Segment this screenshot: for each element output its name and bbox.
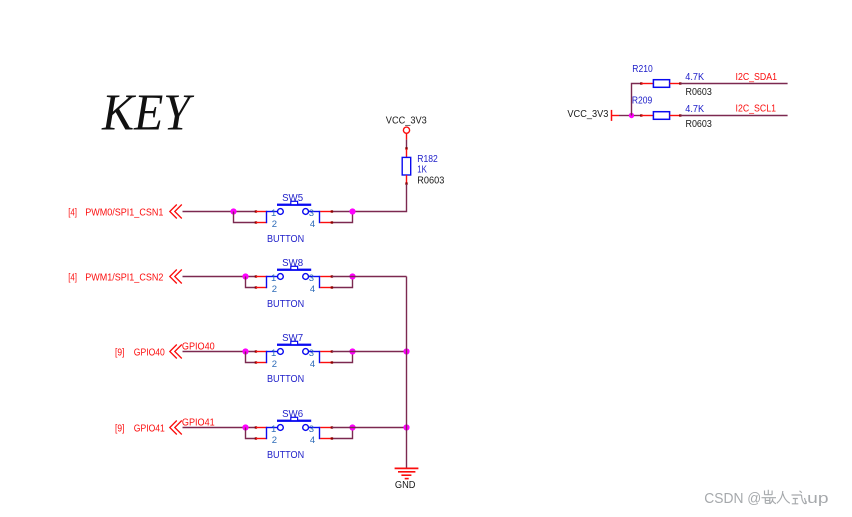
svg-text:[4]: [4]	[68, 208, 77, 219]
resistor R210	[632, 64, 712, 98]
title KEY	[101, 84, 195, 141]
junction left of SW6	[242, 424, 248, 430]
svg-text:[9]: [9]	[115, 424, 125, 435]
svg-text:VCC_3V3: VCC_3V3	[386, 116, 428, 127]
svg-text:4.7K: 4.7K	[685, 72, 704, 83]
wire junction to R210	[632, 82, 643, 115]
junction right of SW6	[349, 424, 355, 430]
svg-text:2: 2	[272, 284, 277, 295]
wire SW5 loop right	[331, 210, 353, 223]
net label I2C_SDA1	[736, 72, 778, 83]
wire SW6 to GND bus	[332, 427, 407, 429]
svg-text:R0603: R0603	[686, 119, 713, 130]
svg-text:R0603: R0603	[686, 87, 713, 98]
switch SW8	[256, 258, 332, 310]
junction right of SW5	[349, 208, 355, 214]
switch SW6	[256, 409, 332, 461]
wire SW7 loop right	[331, 350, 353, 363]
port GPIO40	[115, 345, 182, 359]
svg-text:R182: R182	[417, 154, 438, 165]
wire VCC_3V3 to R182	[405, 140, 407, 150]
wire VCC_3V3 to junction	[619, 115, 632, 117]
svg-text:[9]: [9]	[115, 348, 125, 359]
net label GPIO40	[182, 342, 215, 353]
svg-text:1: 1	[271, 273, 276, 284]
watermark CSDN @嵌入式up	[704, 490, 828, 507]
svg-text:1: 1	[271, 424, 276, 435]
wire SW6 pin2 loop	[246, 426, 258, 439]
svg-text:SW8: SW8	[282, 258, 304, 269]
junction I2C	[629, 113, 634, 118]
wire GND bus	[406, 277, 408, 469]
svg-text:PWM1/SPI1_CSN2: PWM1/SPI1_CSN2	[85, 273, 163, 284]
svg-text:up: up	[807, 491, 828, 507]
wire R182 to SW5 right side	[332, 184, 407, 212]
svg-text:2: 2	[272, 219, 277, 230]
wire SW7 pin2 loop	[246, 350, 258, 363]
junction right of SW7	[349, 348, 355, 354]
wire R209 to I2C_SCL1	[680, 115, 787, 117]
wire SW8 to GND bus	[332, 276, 407, 278]
svg-text:1: 1	[271, 348, 276, 359]
wire SW8 pin2 loop	[246, 275, 258, 288]
svg-text:BUTTON: BUTTON	[267, 450, 304, 461]
wire SW5 pin2 loop	[234, 210, 258, 223]
svg-text:SW6: SW6	[282, 409, 304, 420]
svg-text:I2C_SCL1: I2C_SCL1	[736, 103, 777, 114]
svg-text:4: 4	[310, 284, 315, 295]
svg-text:R209: R209	[632, 95, 652, 106]
switch SW5	[256, 193, 332, 245]
power port VCC_3V3 (right)	[567, 109, 619, 121]
svg-text:BUTTON: BUTTON	[267, 374, 304, 385]
svg-text:VCC_3V3: VCC_3V3	[567, 109, 609, 120]
svg-text:R0603: R0603	[417, 175, 445, 186]
svg-text:GPIO40: GPIO40	[134, 348, 165, 359]
junction left of SW8	[242, 273, 248, 279]
svg-text:GPIO41: GPIO41	[134, 424, 165, 435]
resistor R182	[402, 149, 445, 186]
svg-text:2: 2	[272, 359, 277, 370]
ground GND	[395, 468, 419, 491]
svg-text:4: 4	[310, 359, 315, 370]
power port VCC_3V3 (top)	[386, 116, 428, 140]
svg-text:3: 3	[309, 273, 314, 284]
svg-text:4: 4	[310, 435, 315, 446]
svg-text:I2C_SDA1: I2C_SDA1	[736, 72, 778, 83]
switch SW7	[256, 333, 332, 385]
svg-text:1K: 1K	[417, 165, 427, 176]
wire port to SW8	[183, 276, 256, 278]
svg-text:3: 3	[309, 208, 314, 219]
wire SW7 to GND bus	[332, 351, 407, 353]
svg-text:PWM0/SPI1_CSN1: PWM0/SPI1_CSN1	[85, 208, 163, 219]
svg-text:BUTTON: BUTTON	[267, 299, 304, 310]
svg-text:SW5: SW5	[282, 193, 304, 204]
svg-text:4: 4	[310, 219, 315, 230]
junction bus at SW7 row	[403, 348, 409, 354]
port GPIO41	[115, 421, 182, 435]
wire SW8 loop right	[331, 275, 353, 288]
svg-text:CSDN @: CSDN @	[704, 491, 761, 507]
svg-text:GND: GND	[395, 480, 416, 491]
svg-text:BUTTON: BUTTON	[267, 234, 304, 245]
wire junction to R209	[634, 114, 643, 116]
port PWM0/SPI1_CSN1	[68, 205, 182, 219]
svg-text:4.7K: 4.7K	[685, 104, 704, 115]
wire R210 to I2C_SDA1	[680, 83, 787, 85]
svg-text:[4]: [4]	[68, 273, 77, 284]
svg-text:R210: R210	[632, 64, 653, 75]
junction left of SW5	[230, 208, 236, 214]
net label I2C_SCL1	[736, 103, 777, 114]
svg-text:2: 2	[272, 435, 277, 446]
svg-text:SW7: SW7	[282, 333, 303, 344]
svg-text:KEY: KEY	[101, 84, 195, 141]
wire port to SW5	[183, 211, 256, 213]
svg-text:3: 3	[309, 348, 314, 359]
svg-text:3: 3	[309, 424, 314, 435]
junction right of SW8	[349, 273, 355, 279]
junction left of SW7	[242, 348, 248, 354]
wire SW6 loop right	[331, 426, 353, 439]
port PWM1/SPI1_CSN2	[68, 270, 182, 284]
wire port to SW6	[183, 427, 256, 429]
svg-text:1: 1	[271, 208, 276, 219]
resistor R209	[632, 95, 712, 130]
net label GPIO41	[182, 418, 215, 429]
junction bus at SW6 row	[403, 424, 409, 430]
wire port to SW7	[183, 351, 256, 353]
